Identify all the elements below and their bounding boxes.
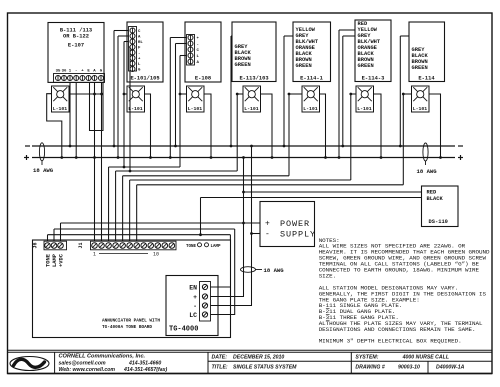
svg-text:GREEN: GREEN [235,62,251,68]
svg-text:MINIMUM 3" DEPTH ELECTRICAL BO: MINIMUM 3" DEPTH ELECTRICAL BOX REQUIRED… [319,337,462,344]
svg-text:-: - [138,52,140,56]
svg-text:E-113/103: E-113/103 [239,75,268,81]
svg-text:CONNECTED TO EARTH GROUND, 18A: CONNECTED TO EARTH GROUND, 18AWG. MINIMU… [319,266,480,273]
svg-text:DECEMBER 15, 2010: DECEMBER 15, 2010 [233,355,284,361]
svg-text:OR B-122: OR B-122 [63,34,89,40]
svg-text:10: 10 [153,252,159,258]
svg-text:GREEN: GREEN [296,63,312,69]
svg-text:+VDC: +VDC [59,253,65,267]
svg-text:35: 35 [56,70,61,74]
svg-text:L-101: L-101 [188,106,203,112]
svg-text:L-101: L-101 [303,106,318,112]
svg-text:L-101: L-101 [53,106,68,112]
svg-text:1: 1 [93,252,96,258]
svg-text:DRAWING #: DRAWING # [355,365,385,371]
svg-text:E-114-3: E-114-3 [362,75,385,81]
svg-text:TITLE:: TITLE: [212,365,228,371]
svg-text:CORNELL Communications, Inc.: CORNELL Communications, Inc. [59,353,146,359]
svg-text:GREEN: GREEN [358,63,374,69]
svg-text:LAMP: LAMP [52,254,58,267]
svg-text:L-101: L-101 [244,106,259,112]
svg-text:-: - [265,230,270,239]
svg-text:D4000W-1A: D4000W-1A [436,365,465,371]
svg-text:TONE: TONE [46,253,52,267]
svg-text:LAMP: LAMP [211,245,222,249]
svg-text:18 AWG: 18 AWG [33,167,54,174]
svg-text:E-108: E-108 [195,75,211,81]
svg-text:TG-4000A TONE BOARD: TG-4000A TONE BOARD [102,325,152,330]
svg-text:36: 36 [62,70,67,74]
svg-text:L-101: L-101 [413,106,428,112]
svg-text:TONE: TONE [186,245,197,249]
svg-text:SYSTEM:: SYSTEM: [355,355,378,361]
svg-text:414-351-4657(fax): 414-351-4657(fax) [123,367,168,373]
svg-text:+: + [193,294,197,301]
svg-text:L-101: L-101 [357,106,372,112]
svg-text:90003-10: 90003-10 [398,365,420,371]
svg-text:DATE:: DATE: [212,355,228,361]
svg-text:E-114-1: E-114-1 [300,75,323,81]
svg-text:-: - [197,43,199,47]
svg-text:DS-110: DS-110 [429,219,448,225]
svg-text:E-101/105: E-101/105 [130,75,159,81]
svg-text:18 AWG: 18 AWG [264,267,285,274]
svg-text:POWER: POWER [280,219,310,229]
svg-text:E-114: E-114 [418,75,435,81]
svg-text:LC: LC [189,312,197,319]
svg-text:SUPPLY: SUPPLY [280,230,316,240]
svg-text:GREEN: GREEN [412,65,428,71]
svg-text:sales@cornell.com: sales@cornell.com [59,360,107,366]
svg-text:J1: J1 [78,242,84,248]
svg-text:TG-4000: TG-4000 [169,326,198,334]
svg-text:J6: J6 [33,242,39,248]
svg-text:-: - [193,303,197,310]
svg-text:18 AWG: 18 AWG [417,168,438,175]
svg-text:RED: RED [427,190,437,196]
svg-text:-: - [75,70,77,74]
svg-text:SIZE.: SIZE. [319,272,336,279]
svg-text:4000 NURSE CALL: 4000 NURSE CALL [402,355,449,361]
svg-text:+: + [265,220,270,229]
svg-text:RL: RL [138,41,143,45]
svg-text:BLACK: BLACK [427,196,444,202]
svg-text:ANNUNCIATOR PANEL WITH: ANNUNCIATOR PANEL WITH [102,319,160,324]
svg-text:414-351-4660: 414-351-4660 [128,360,161,366]
svg-text:SINGLE STATUS SYSTEM: SINGLE STATUS SYSTEM [233,365,297,371]
svg-text:EN: EN [189,284,197,291]
svg-text:E-107: E-107 [68,43,84,49]
svg-text:DESIGNATIONS AND CONNECTIONS R: DESIGNATIONS AND CONNECTIONS REMAIN THE … [319,326,476,333]
svg-text:Web: www.cornell.com: Web: www.cornell.com [59,367,116,373]
